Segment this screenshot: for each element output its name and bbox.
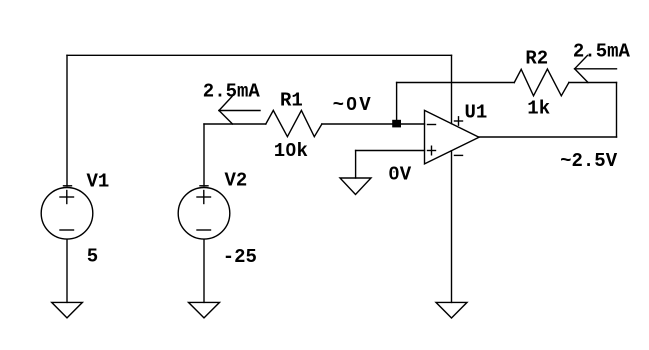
wire V2 to R1	[204, 123, 266, 125]
node A junction dot	[392, 120, 401, 128]
resistor R1	[266, 110, 322, 136]
svg-text:0V: 0V	[388, 164, 411, 186]
ground (V2)	[189, 302, 220, 318]
svg-text:1k: 1k	[527, 98, 550, 120]
ground (plus input)	[340, 178, 371, 195]
wire R2 to right corner	[569, 82, 617, 84]
ground (op-amp V-)	[436, 302, 467, 318]
resistor R2	[514, 69, 569, 96]
zero dot masks	[350, 102, 354, 107]
wire V1 top lead	[66, 55, 68, 186]
svg-text:5: 5	[87, 246, 98, 268]
current arrow R2	[575, 55, 617, 82]
svg-text:U1: U1	[465, 102, 488, 124]
wire op-amp V- drop	[451, 151, 453, 303]
op-amp U1	[425, 110, 480, 163]
wire feedback vertical from node A	[396, 83, 398, 125]
wire output	[479, 136, 617, 138]
ground (V1)	[52, 302, 83, 318]
svg-text:2.5mA: 2.5mA	[573, 40, 631, 62]
svg-text:R1: R1	[280, 90, 303, 112]
wire V1 bottom lead	[66, 240, 68, 303]
voltage source V2	[178, 186, 230, 239]
svg-text:-25: -25	[223, 246, 257, 268]
wire plus input ground drop	[355, 151, 357, 179]
svg-text:V2: V2	[225, 170, 248, 192]
wire V2 bottom lead	[203, 240, 205, 303]
wire feedback horizontal to R2	[397, 82, 515, 84]
wire op-amp V+ drop	[451, 55, 453, 123]
wire V2 top lead	[203, 124, 205, 186]
svg-text:~2.5V: ~2.5V	[560, 150, 618, 172]
svg-text:R2: R2	[525, 48, 548, 70]
current arrow R1	[219, 97, 260, 125]
svg-text:V1: V1	[87, 171, 110, 193]
wire R1 to op-amp minus input	[322, 123, 425, 125]
svg-text:2.5mA: 2.5mA	[203, 80, 261, 102]
voltage source V1	[41, 186, 93, 239]
wire top rail	[67, 54, 452, 56]
wire right vertical	[616, 83, 618, 138]
wire op-amp plus input	[356, 150, 425, 152]
